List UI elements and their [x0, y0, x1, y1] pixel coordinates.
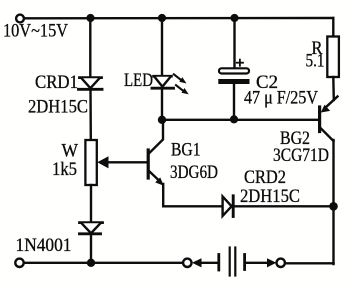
battery plug terminal left	[183, 259, 191, 267]
node G (bottom rail junction)	[87, 259, 95, 267]
wire top rail	[24, 17, 333, 20]
terminal J1 (+ input)	[16, 15, 24, 23]
battery GB long plate right	[234, 248, 236, 276]
wire C2 to mid rail	[233, 84, 235, 120]
capacitor C2 minus plate	[218, 79, 249, 84]
capacitor C2 plus plate	[219, 68, 249, 73]
LED emission arrow 1	[174, 74, 187, 83]
svg-text:2DH15C: 2DH15C	[240, 187, 300, 207]
transistor BG2 emitter with arrow	[321, 97, 338, 113]
potentiometer W body	[85, 140, 96, 185]
svg-text:5.1: 5.1	[306, 52, 325, 72]
battery plug arrow left	[192, 258, 218, 267]
diode CRD1	[79, 78, 103, 90]
wire bottom rail left	[24, 262, 183, 264]
wire CRD1 to pot W	[89, 90, 92, 140]
wire C2 branch upper	[233, 18, 235, 68]
svg-text:BG1: BG1	[171, 141, 201, 161]
wire pot W to 1N4001	[90, 185, 92, 223]
battery plug arrow right	[246, 258, 276, 267]
wire R to BG2 emitter	[332, 77, 335, 100]
terminal J2 (- input)	[15, 259, 23, 267]
svg-text:3DG6D: 3DG6D	[170, 163, 218, 183]
svg-text:W: W	[62, 142, 79, 162]
svg-text:CRD2: CRD2	[244, 168, 286, 188]
wire 1N4001 to bottom rail	[90, 234, 92, 263]
wire LED branch upper	[161, 18, 163, 76]
svg-text:1N4001: 1N4001	[16, 236, 72, 256]
transistor BG2 base bar	[318, 107, 321, 132]
wire right vertical to R	[332, 18, 334, 37]
battery plug terminal right	[277, 259, 285, 267]
svg-text:1k5: 1k5	[52, 160, 77, 180]
wire LED to mid rail	[161, 89, 163, 120]
transistor BG1 emitter with arrow	[150, 172, 164, 186]
wire bottom rail right	[285, 262, 333, 264]
battery GB short plate left	[217, 255, 220, 271]
wire BG1 emitter down to CRD2	[163, 184, 222, 206]
wire BG2 collector down	[332, 140, 334, 264]
capacitor C2 plus sign	[237, 60, 243, 66]
node B (top LED)	[158, 14, 166, 22]
wire mid rail (BG2 base rail)	[162, 119, 318, 121]
battery GB short plate right	[243, 255, 246, 270]
transistor BG1 base bar	[147, 150, 150, 178]
LED D2	[152, 76, 174, 88]
resistor R	[327, 37, 339, 78]
transistor BG1 collector	[150, 122, 164, 153]
svg-text:CRD1: CRD1	[35, 73, 78, 93]
wire CRD1 branch upper	[89, 18, 91, 78]
transistor BG2 collector	[320, 128, 334, 142]
LED emission arrow 2	[176, 85, 189, 94]
wire CRD2 to right rail	[234, 205, 334, 207]
svg-text:2DH15C: 2DH15C	[28, 98, 88, 118]
battery GB long plate left	[229, 248, 231, 276]
node A (top CRD1)	[86, 14, 94, 22]
node E (C2 junction)	[230, 115, 238, 123]
node F (CRD2 / BG2 collector junction)	[329, 202, 338, 211]
diode CRD2	[223, 196, 234, 217]
node C (top C2)	[230, 14, 238, 22]
svg-text:LED: LED	[124, 71, 153, 91]
node D (LED / BG1 collector junction)	[158, 116, 166, 124]
potentiometer W wiper arrow	[97, 156, 148, 168]
svg-text:10V~15V: 10V~15V	[3, 22, 69, 42]
svg-text:47 μ F/25V: 47 μ F/25V	[244, 89, 319, 109]
diode 1N4001	[80, 223, 103, 234]
svg-text:3CG71D: 3CG71D	[273, 146, 329, 166]
